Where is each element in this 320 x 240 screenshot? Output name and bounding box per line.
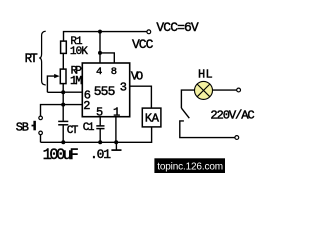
svg-text:2: 2 [83,99,90,113]
junction rail dot [98,30,102,34]
lamp HL [195,81,213,99]
node AC terminal top circle [237,88,241,92]
svg-text:5: 5 [96,106,103,120]
svg-text:topinc.126.com: topinc.126.com [157,161,223,172]
svg-text:KA: KA [145,112,160,126]
wire contact lower lead [180,121,235,138]
node AC terminal bottom circle [235,136,239,140]
svg-text:HL: HL [198,68,213,82]
node VCC terminal circle [147,30,151,34]
svg-text:1: 1 [113,106,120,120]
svg-text:VCC: VCC [132,37,154,52]
wire wiper to node [47,91,63,93]
junction CT ground dot [61,140,65,144]
wire ground rail [41,127,152,142]
junction pin4/8 dot [98,51,102,55]
junction C1 ground dot [98,140,102,144]
wire pin8 branch [100,53,114,63]
svg-text:4: 4 [96,66,102,78]
wire pin2 [63,104,82,106]
pushbutton SB contact top [39,116,43,120]
svg-text:1M: 1M [70,74,82,88]
svg-text:220V/AC: 220V/AC [210,108,254,122]
wire node column [62,92,64,121]
junction node 2 dot [61,103,65,107]
svg-text:100uF: 100uF [43,146,79,164]
capacitor CT plates [58,120,68,122]
pushbutton SB contact bottom [39,131,43,135]
svg-text:C1: C1 [83,122,95,134]
brace RT [39,31,46,85]
resistor R1 [61,41,67,53]
svg-text:CT: CT [67,125,79,137]
op IC 555 box U1 [82,63,129,117]
wire lamp left + contact upper lead [181,90,194,108]
svg-text:.01: .01 [90,147,111,162]
wire CT bottom lead [62,125,64,142]
wire pin3 output [130,86,152,108]
wire RP bottom lead [62,84,64,93]
wire RP wiper arrow [47,76,56,92]
svg-text:10K: 10K [70,46,88,58]
wire top supply rail [64,32,147,42]
wire pin6 [63,91,82,93]
svg-text:SB: SB [16,121,29,135]
junction pin1 ground dot [114,140,118,144]
wire pin4 drop from rail [99,32,101,63]
wire lamp right [213,89,237,91]
wire pin1 lead [115,117,117,143]
capacitor C1 plates [96,125,104,127]
svg-text:VO: VO [131,70,143,84]
svg-text:555: 555 [94,84,115,99]
wire SB top [41,105,64,117]
relay contact KA blade [181,108,189,118]
ground symbol [115,142,117,150]
pushbutton SB actuator [33,121,36,131]
relay coil KA box [142,108,161,127]
svg-text:RT: RT [25,52,39,66]
svg-text:3: 3 [120,80,127,94]
wire SB bottom lead [40,135,42,143]
wire pin5 lead [99,117,101,126]
svg-text:VCC=6V: VCC=6V [156,20,199,35]
potentiometer RP [60,69,66,84]
wire R1 to RP [62,53,64,69]
junction node 6 dot [61,90,65,94]
watermark box [154,158,225,173]
wire C1 bottom lead [99,129,101,142]
svg-text:8: 8 [111,66,117,78]
